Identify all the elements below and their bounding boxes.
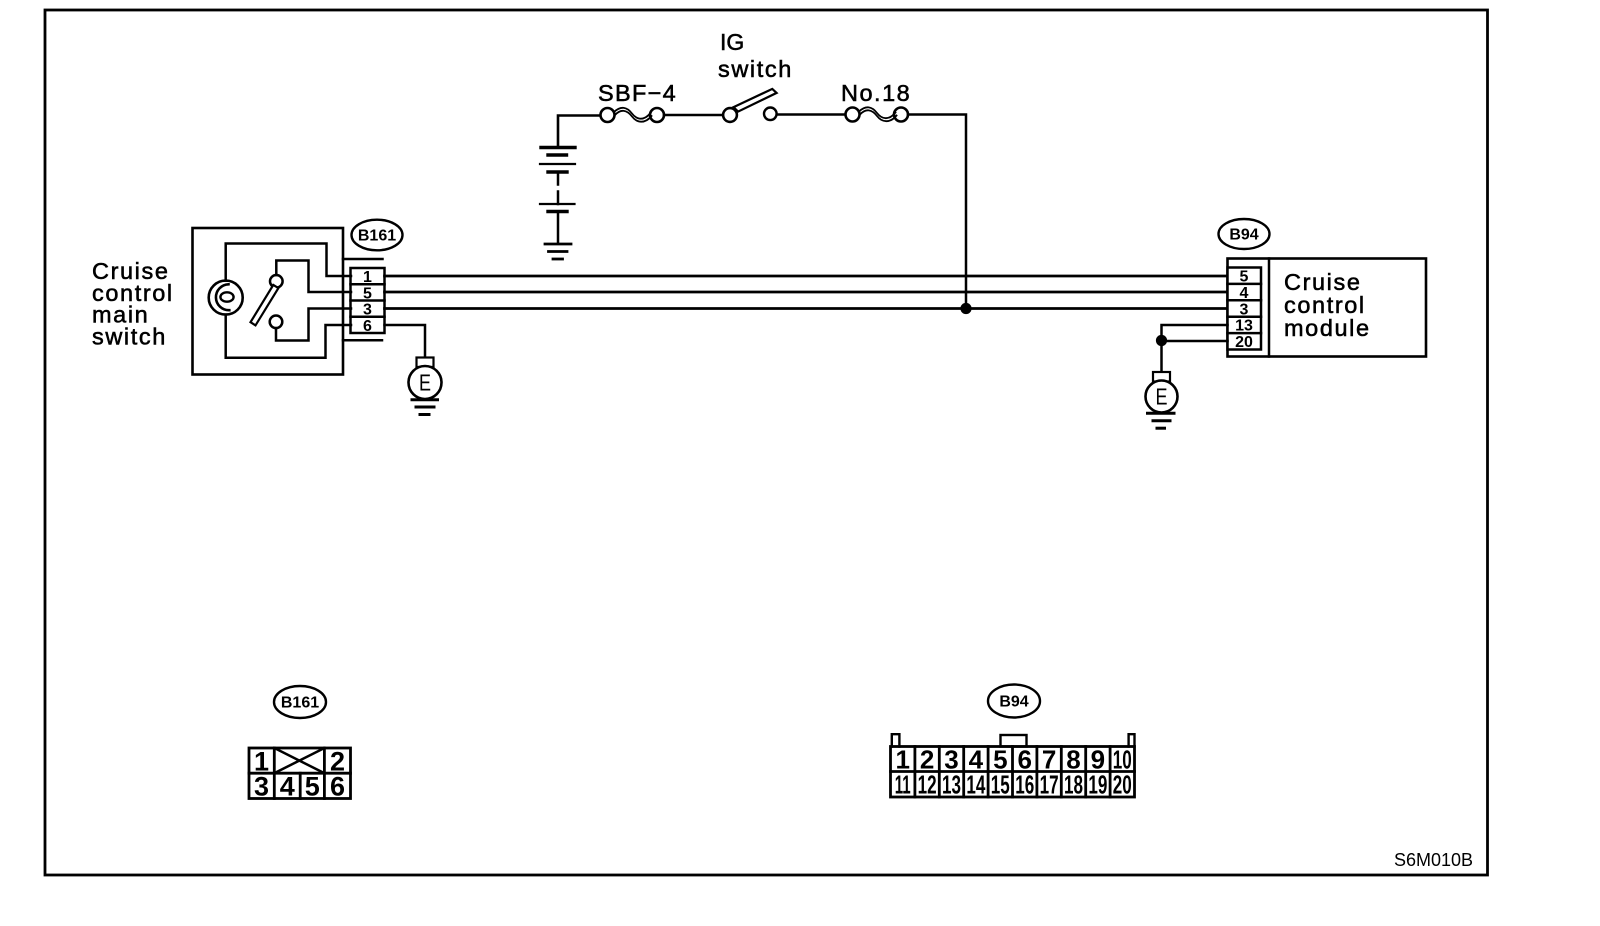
svg-text:3: 3	[363, 302, 372, 319]
connector B161 oval label	[352, 220, 403, 251]
wire pin20 to junction	[1162, 340, 1228, 343]
connector B94 bottom oval label	[988, 685, 1040, 718]
connector B94 oval label	[1219, 219, 1270, 249]
svg-text:3: 3	[1240, 301, 1249, 318]
connector B161 shell	[343, 258, 383, 261]
indicator lamp	[209, 281, 243, 315]
connector B161 pins	[351, 268, 385, 333]
svg-text:4: 4	[1240, 285, 1249, 302]
svg-text:1: 1	[363, 269, 372, 286]
svg-text:B94: B94	[999, 694, 1028, 711]
wire junction to ground	[1160, 341, 1163, 373]
connector B161 bottom oval label	[274, 686, 326, 718]
svg-text:B161: B161	[358, 228, 396, 245]
svg-text:4: 4	[280, 772, 295, 802]
junction node	[1156, 335, 1167, 346]
connector B94 pin face	[891, 734, 1135, 797]
svg-text:6: 6	[330, 772, 345, 802]
svg-text:5: 5	[363, 285, 372, 302]
bus wire pin1 to pin5	[385, 275, 1228, 278]
svg-text:switch: switch	[718, 56, 793, 82]
wire to feeder corner	[908, 115, 966, 309]
svg-text:switch: switch	[92, 324, 167, 350]
label cruise control module	[1284, 269, 1371, 341]
svg-text:13: 13	[942, 770, 961, 800]
cruise control module box	[1228, 259, 1427, 357]
junction node	[960, 303, 971, 314]
bus wire pin3 to pin3	[385, 307, 1228, 310]
svg-text:5: 5	[305, 772, 320, 802]
svg-text:20: 20	[1113, 770, 1132, 800]
svg-text:S6M010B: S6M010B	[1394, 850, 1473, 870]
svg-text:No.18: No.18	[841, 80, 911, 106]
svg-text:3: 3	[254, 772, 269, 802]
svg-text:E: E	[1156, 384, 1168, 410]
wire pin13 to junction	[1162, 325, 1228, 341]
cruise control main switch box	[193, 228, 344, 375]
svg-text:17: 17	[1040, 770, 1059, 800]
svg-text:B161: B161	[281, 695, 319, 712]
svg-text:B94: B94	[1229, 227, 1258, 244]
svg-text:20: 20	[1235, 334, 1253, 351]
wire pivot to pin 5	[276, 261, 351, 293]
svg-text:12: 12	[918, 770, 937, 800]
svg-text:15: 15	[991, 770, 1010, 800]
wire lamp bottom to pin 6	[226, 315, 351, 358]
battery ground	[545, 244, 571, 259]
svg-text:SBF−4: SBF−4	[598, 80, 677, 106]
connector B161 pin face	[249, 748, 351, 799]
svg-text:module: module	[1284, 315, 1371, 341]
connector B94 pins	[1228, 268, 1262, 350]
fuse SBF-4	[601, 108, 665, 122]
svg-text:11: 11	[895, 770, 911, 800]
svg-text:IG: IG	[720, 29, 744, 55]
label cruise control main switch	[92, 258, 174, 350]
svg-text:13: 13	[1235, 318, 1253, 335]
wire	[664, 114, 723, 117]
svg-text:5: 5	[1240, 269, 1249, 286]
svg-text:18: 18	[1064, 770, 1083, 800]
ground E right	[1146, 372, 1178, 428]
svg-text:14: 14	[966, 770, 985, 800]
wire	[777, 113, 846, 116]
IG switch	[723, 89, 777, 122]
ground E left	[409, 358, 442, 415]
svg-text:E: E	[419, 370, 431, 396]
battery B+	[540, 116, 601, 244]
fuse No.18	[846, 107, 909, 121]
bus wire pin5 to pin4	[385, 291, 1228, 294]
svg-text:16: 16	[1015, 770, 1034, 800]
wire lamp to pin 1	[226, 244, 351, 281]
switch contacts	[251, 275, 283, 328]
svg-text:6: 6	[363, 318, 372, 335]
svg-text:19: 19	[1088, 770, 1107, 800]
switch lever	[251, 285, 279, 326]
wire contact to pin 3	[276, 309, 351, 341]
wire pin6 to ground	[385, 325, 426, 357]
